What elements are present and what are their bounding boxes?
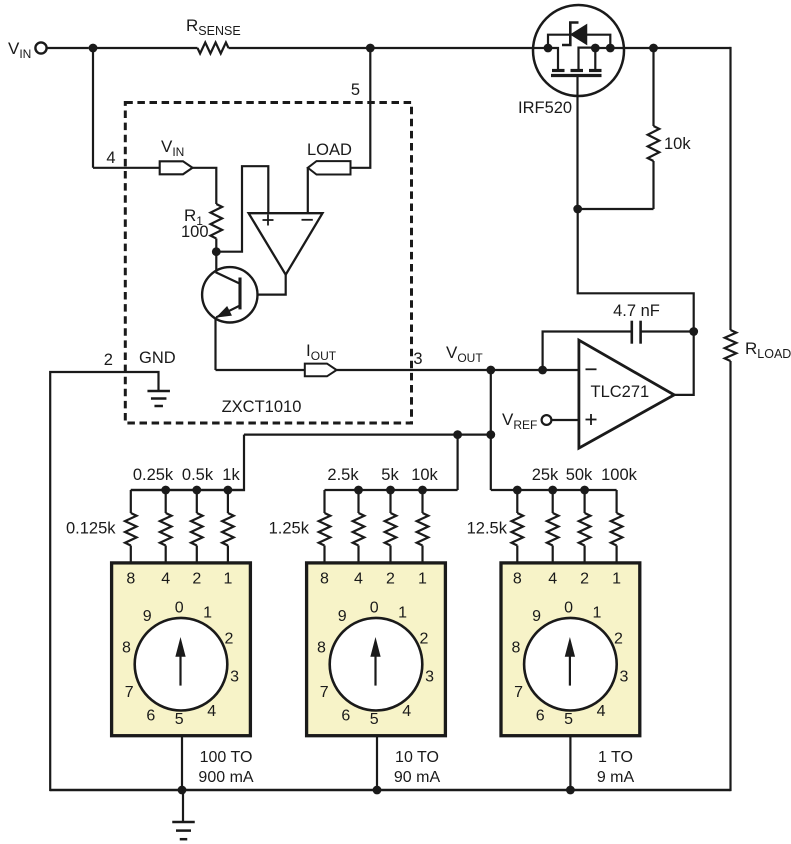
bottom rail wire xyxy=(50,789,730,791)
svg-text:9: 9 xyxy=(338,608,347,625)
svg-text:1: 1 xyxy=(418,571,427,588)
svg-text:2: 2 xyxy=(420,631,429,648)
resistor R1 xyxy=(211,204,223,239)
resistor 0.25k xyxy=(160,513,172,546)
switch S1 pointer arrow xyxy=(179,654,181,686)
wire right rail bottom xyxy=(729,361,731,791)
svg-text:7: 7 xyxy=(125,684,134,701)
svg-text:50k: 50k xyxy=(566,466,593,484)
svg-text:3: 3 xyxy=(230,668,239,685)
wire VIN tag to R1 xyxy=(193,168,217,204)
svg-text:3: 3 xyxy=(413,350,422,368)
svg-text:10 TO: 10 TO xyxy=(395,749,439,766)
resistor 25k xyxy=(547,513,559,546)
switch S3 dial circle xyxy=(524,618,617,711)
svg-text:8: 8 xyxy=(126,571,135,588)
svg-text:7: 7 xyxy=(320,684,329,701)
Q1 drain lead to channel xyxy=(548,48,558,70)
svg-text:4: 4 xyxy=(207,703,216,720)
wire U1 output to Q2 base xyxy=(242,275,286,295)
svg-text:2: 2 xyxy=(580,571,589,588)
switch S2 dial circle xyxy=(330,618,423,711)
resistor 0.5k xyxy=(191,513,203,546)
wire VIN to node A xyxy=(47,47,89,49)
wire RSENSE to node B xyxy=(229,47,371,49)
Q1 channel bar drain xyxy=(552,69,565,72)
svg-text:5: 5 xyxy=(370,711,379,728)
svg-text:25k: 25k xyxy=(532,466,559,484)
svg-text:GND: GND xyxy=(139,349,176,367)
node C junction dot xyxy=(212,247,221,256)
wire U2 output feedback xyxy=(578,209,694,395)
svg-text:ZXCT1010: ZXCT1010 xyxy=(222,398,302,416)
ZXCT1010 dashed boundary xyxy=(125,103,411,424)
ground symbol GND pin xyxy=(147,390,170,393)
wire pin 4 into box xyxy=(93,167,160,169)
svg-text:0: 0 xyxy=(564,600,573,617)
pin tag VIN xyxy=(160,161,193,174)
wire 10k top lead xyxy=(652,48,654,126)
resistor RLOAD xyxy=(725,330,737,361)
op-amp U2 TLC271 triangle xyxy=(579,340,674,448)
switch S3 pointer arrow xyxy=(569,654,571,686)
Q1 drain junction dot xyxy=(544,44,553,53)
svg-text:4.7 nF: 4.7 nF xyxy=(613,302,660,320)
svg-text:6: 6 xyxy=(341,708,350,725)
svg-text:4: 4 xyxy=(354,571,363,588)
Q2 emitter lead xyxy=(216,306,240,318)
wire cap branch up xyxy=(543,332,632,371)
svg-text:5k: 5k xyxy=(381,466,399,484)
resistor 10k xyxy=(417,513,429,546)
wire to right rail corner xyxy=(654,47,731,49)
wire node A down to pin 4 xyxy=(92,48,94,168)
svg-text:1.25k: 1.25k xyxy=(269,520,310,538)
svg-text:10k: 10k xyxy=(411,466,438,484)
svg-text:0.125k: 0.125k xyxy=(66,520,116,538)
svg-text:100: 100 xyxy=(181,223,209,241)
svg-text:0.5k: 0.5k xyxy=(182,466,214,484)
svg-text:4: 4 xyxy=(548,571,557,588)
svg-text:10k: 10k xyxy=(664,135,691,153)
resistor 10k xyxy=(648,126,660,161)
junction dot S1 ground xyxy=(178,786,187,795)
Q1 gate bar xyxy=(551,74,602,77)
svg-text:1: 1 xyxy=(203,605,212,622)
wire node A to RSENSE xyxy=(93,47,198,49)
svg-text:3: 3 xyxy=(425,668,434,685)
resistor 0.125k xyxy=(125,513,137,546)
wire LOAD tag to opamp minus input xyxy=(307,168,309,213)
op-amp U1 triangle xyxy=(249,213,323,275)
resistor RSENSE xyxy=(198,43,229,54)
svg-text:5: 5 xyxy=(175,711,184,728)
U1 minus sign xyxy=(302,219,313,221)
svg-text:2: 2 xyxy=(192,571,201,588)
wire S3 to bottom rail xyxy=(569,736,571,790)
svg-text:2.5k: 2.5k xyxy=(327,466,359,484)
svg-text:9: 9 xyxy=(532,608,541,625)
wire 10k bottom lead xyxy=(652,161,654,209)
svg-text:100k: 100k xyxy=(601,466,638,484)
svg-text:4: 4 xyxy=(402,703,411,720)
wire 10k to gate node xyxy=(578,208,654,210)
rotary switch S3 body xyxy=(501,563,640,736)
svg-text:0: 0 xyxy=(370,600,379,617)
terminal VIN xyxy=(35,42,46,53)
Q1 middle channel connector xyxy=(579,48,596,70)
Q1 source junction dot 2 xyxy=(606,44,615,53)
junction dot at 10k top xyxy=(649,44,658,53)
svg-text:100 TO: 100 TO xyxy=(200,749,253,766)
U1 plus sign xyxy=(263,219,274,221)
svg-text:8: 8 xyxy=(511,640,520,657)
svg-text:2: 2 xyxy=(104,351,113,369)
wire drain entering Q1 xyxy=(533,47,548,49)
pin tag IOUT xyxy=(305,364,337,377)
svg-text:12.5k: 12.5k xyxy=(467,520,508,538)
resistor 100k xyxy=(611,513,623,546)
resistor 1.25k xyxy=(319,513,331,546)
bank2 resistors 1.25k 2.5k 5k 10k xyxy=(325,489,458,491)
wire S2 to bottom rail xyxy=(376,736,378,790)
Q1 source bar lead xyxy=(594,48,596,70)
Q1 source wire xyxy=(595,47,610,49)
pin tag LOAD xyxy=(308,161,351,174)
Q1 body diode rail right xyxy=(587,35,611,48)
wire right rail top xyxy=(729,47,731,330)
bank1 resistors 0.125k 0.25k 0.5k 1k xyxy=(131,489,245,491)
switch S1 dial circle xyxy=(135,618,228,711)
ground symbol bottom xyxy=(172,821,195,824)
svg-text:6: 6 xyxy=(536,708,545,725)
resistor 1k xyxy=(222,513,234,546)
svg-text:2: 2 xyxy=(225,631,234,648)
svg-text:9: 9 xyxy=(143,608,152,625)
Q1 source junction dot 1 xyxy=(591,44,600,53)
capacitor C1 left plate xyxy=(630,321,633,344)
U2 minus sign xyxy=(586,368,597,370)
row junction dot bank3 xyxy=(486,430,495,439)
wire node B down to LOAD tag xyxy=(351,48,371,168)
svg-text:2: 2 xyxy=(614,631,623,648)
svg-text:TLC271: TLC271 xyxy=(591,383,650,401)
node B junction xyxy=(366,44,375,53)
resistor 50k xyxy=(579,513,591,546)
wire riser bank1 xyxy=(131,435,244,490)
svg-text:1: 1 xyxy=(398,605,407,622)
transistor Q2 circle xyxy=(202,267,257,322)
terminal VREF xyxy=(542,415,552,425)
switch S2 pointer arrow xyxy=(374,654,376,686)
bank3 resistors 12.5k 25k 50k 100k xyxy=(491,489,617,491)
Q1 channel bar source xyxy=(589,69,602,72)
wire node C to opamp plus input xyxy=(216,166,268,252)
svg-text:1: 1 xyxy=(612,571,621,588)
gate node junction dot xyxy=(573,205,582,214)
svg-text:4: 4 xyxy=(597,703,606,720)
svg-text:1: 1 xyxy=(593,605,602,622)
Q2 emitter arrowhead xyxy=(217,307,231,317)
wire riser bank3 xyxy=(490,435,492,490)
resistor 2.5k xyxy=(353,513,365,546)
wire R1 bottom to node C xyxy=(215,239,217,252)
row junction dot bank2 xyxy=(453,430,462,439)
svg-text:8: 8 xyxy=(320,571,329,588)
svg-text:5: 5 xyxy=(351,81,360,99)
transistor Q1 IRF520 body circle xyxy=(533,5,624,96)
wire VREF to U2 plus xyxy=(551,419,579,421)
Q1 body diode rail left xyxy=(548,35,569,48)
Q2 base bar xyxy=(238,278,241,310)
capacitor C1 right plate xyxy=(639,321,642,344)
wire node B to MOSFET drain xyxy=(370,47,548,49)
svg-text:7: 7 xyxy=(514,684,523,701)
wire VOUT down to row xyxy=(490,370,492,435)
wire Q1 gate down xyxy=(576,76,578,209)
svg-text:LOAD: LOAD xyxy=(307,141,352,159)
wire VOUT to cap branch xyxy=(491,369,543,371)
U2 plus sign xyxy=(586,419,597,421)
Q1 channel bar middle xyxy=(571,69,584,72)
Q1 body diode zener cathode xyxy=(562,23,579,46)
svg-text:1 TO: 1 TO xyxy=(598,749,633,766)
node VOUT junction dot xyxy=(486,366,495,375)
svg-text:3: 3 xyxy=(620,668,629,685)
svg-text:0.25k: 0.25k xyxy=(133,466,174,484)
wire Q2 emitter to IOUT tag xyxy=(216,369,305,371)
svg-text:9 mA: 9 mA xyxy=(597,769,635,786)
wire Q2 emitter down xyxy=(214,317,216,370)
rotary switch S2 body xyxy=(307,563,446,736)
svg-text:2: 2 xyxy=(386,571,395,588)
svg-text:1k: 1k xyxy=(222,466,240,484)
svg-text:4: 4 xyxy=(161,571,170,588)
svg-text:90 mA: 90 mA xyxy=(394,769,441,786)
wire VOUT to TLC271 minus xyxy=(543,369,580,371)
wire Q1 source to 10k node xyxy=(610,47,653,49)
svg-text:6: 6 xyxy=(146,708,155,725)
wire S1 to bottom rail xyxy=(181,736,183,790)
svg-text:1: 1 xyxy=(223,571,232,588)
svg-text:IRF520: IRF520 xyxy=(518,99,572,117)
node A junction xyxy=(89,44,98,53)
rotary switch S1 body xyxy=(112,563,251,736)
resistor 12.5k xyxy=(512,513,524,546)
junction dot S3 ground xyxy=(566,786,575,795)
svg-text:8: 8 xyxy=(513,571,522,588)
wire IOUT to pin 3 and VOUT xyxy=(337,369,491,371)
resistor 5k xyxy=(385,513,397,546)
svg-text:5: 5 xyxy=(564,711,573,728)
wire cap to feedback node xyxy=(641,330,694,332)
wire pin2 gnd xyxy=(50,372,158,791)
svg-text:8: 8 xyxy=(122,640,131,657)
svg-text:900 mA: 900 mA xyxy=(198,769,253,786)
Q1 body diode triangle xyxy=(571,25,586,44)
svg-text:4: 4 xyxy=(106,149,115,167)
Q2 collector lead xyxy=(216,252,239,284)
feedback node junction dot xyxy=(689,327,698,336)
junction dot S2 ground xyxy=(373,786,382,795)
wire riser bank2 xyxy=(457,435,459,490)
svg-text:0: 0 xyxy=(175,600,184,617)
wire bank row xyxy=(244,434,491,436)
ground stub bottom xyxy=(182,790,184,821)
cap branch junction dot xyxy=(538,366,547,375)
svg-text:8: 8 xyxy=(317,640,326,657)
